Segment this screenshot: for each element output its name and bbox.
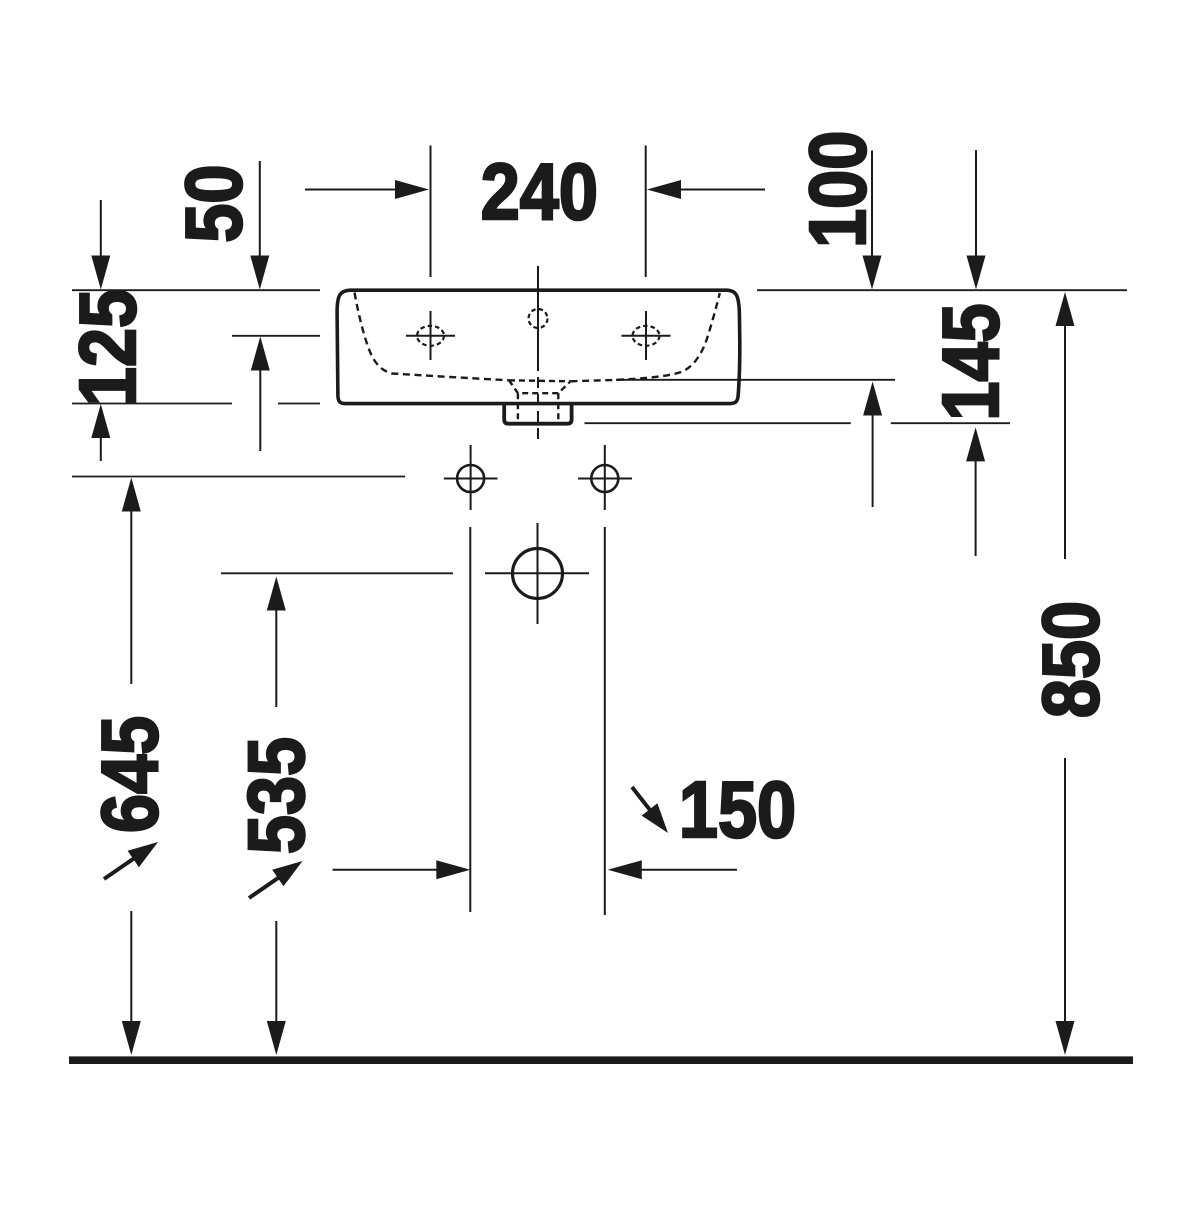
basin inner bowl dashed contour [355, 293, 720, 382]
drain flange below basin [504, 404, 571, 424]
reference line rim top right [757, 289, 1127, 291]
150 left-pointing arrow [639, 869, 737, 871]
left tap hole dashed ellipse [417, 326, 444, 346]
240 arrow right [679, 189, 765, 191]
145 down arrow [975, 150, 977, 258]
100 up arrow [872, 414, 874, 507]
645 dimension line lower with down arrow [130, 911, 132, 1024]
reference line tap level left [232, 335, 320, 337]
240 arrow left [305, 189, 398, 191]
145 up arrow [975, 459, 977, 556]
svg-text:100: 100 [793, 131, 882, 248]
150 right-pointing arrow [333, 869, 440, 871]
50 up arrow [259, 368, 261, 451]
reference line bowl bottom right [616, 379, 895, 381]
645 dimension line upper with up arrow [130, 509, 132, 684]
100 down arrow [871, 151, 873, 259]
svg-text:850: 850 [1026, 601, 1115, 718]
50 down arrow [259, 161, 261, 258]
svg-text:125: 125 [63, 289, 152, 406]
left fixing hole crosshair [444, 445, 498, 510]
drain recess trapezoid (dashed) [509, 380, 571, 420]
svg-text:145: 145 [926, 303, 1015, 420]
reference line basin bottom left [72, 403, 320, 405]
svg-text:645: 645 [85, 716, 174, 833]
left tap hole crosshair [406, 311, 455, 360]
850 dimension line upper with up arrow [1064, 324, 1066, 559]
645 leader arrow [104, 857, 136, 879]
svg-text:50: 50 [169, 165, 258, 243]
240 extension line left [430, 146, 432, 278]
basin outline [337, 290, 740, 403]
vertical centre line dashed part [537, 360, 539, 441]
left fixing hole [457, 465, 484, 492]
right tap hole crosshair [622, 311, 671, 360]
535 leader arrow [249, 876, 281, 898]
svg-text:535: 535 [231, 737, 320, 854]
overflow hole (dashed circle) [529, 309, 548, 328]
svg-text:240: 240 [481, 147, 598, 236]
floor line [69, 1056, 1133, 1064]
fixing hole extension line right [604, 527, 606, 915]
right tap hole dashed ellipse [633, 326, 660, 346]
125 up arrow [100, 436, 102, 461]
150 leader arrow [632, 787, 651, 811]
fixing hole extension line left [469, 527, 471, 912]
right fixing hole [591, 465, 618, 492]
reference line fixing level left [72, 476, 405, 478]
right fixing hole crosshair [578, 445, 632, 510]
240 extension line right [645, 146, 647, 278]
535 dimension line upper with up arrow [275, 608, 277, 707]
reference line rim top left [72, 289, 320, 291]
125 down arrow [100, 200, 102, 258]
535 dimension line lower with down arrow [275, 921, 277, 1024]
reference line flange bottom right [585, 422, 1011, 424]
vertical centre line solid part [537, 266, 539, 360]
drain circle [513, 549, 563, 599]
drain circle crosshair [485, 523, 589, 624]
svg-text:150: 150 [679, 765, 796, 854]
850 dimension line lower with down arrow [1064, 758, 1066, 1024]
reference line drain level left [221, 572, 453, 574]
